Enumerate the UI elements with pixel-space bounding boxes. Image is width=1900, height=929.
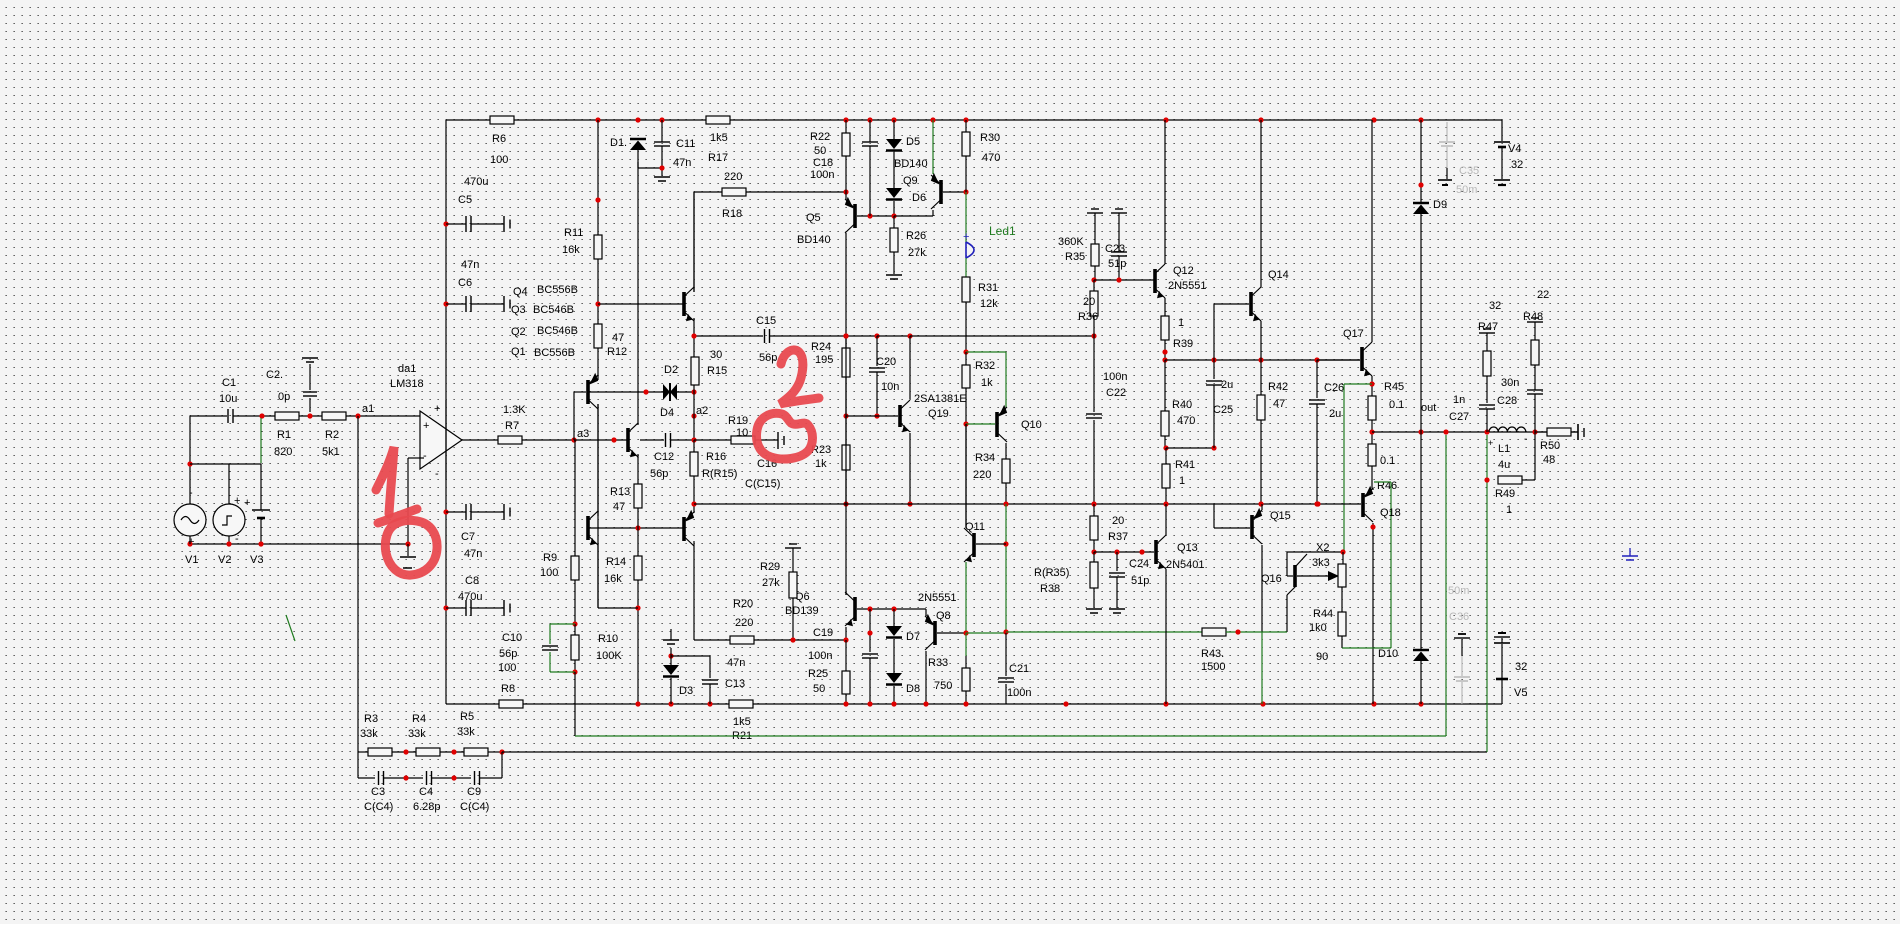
wire Q13 emitter down: [1165, 569, 1167, 704]
wire R12 to QL emitter: [597, 348, 599, 380]
svg-text:R9: R9: [543, 552, 557, 564]
svg-text:R41: R41: [1175, 459, 1195, 471]
svg-text:1k5: 1k5: [733, 716, 751, 728]
wire D9 top lead: [1420, 120, 1422, 203]
tie above C23: [1111, 209, 1127, 213]
wire C21 top lead: [1005, 633, 1007, 676]
annotation circle 1: [385, 520, 437, 575]
svg-text:48: 48: [1543, 454, 1555, 466]
wire R46 green down: [1390, 482, 1392, 648]
dot R24 top: [843, 333, 848, 338]
svg-text:C2.: C2.: [266, 369, 283, 381]
wire feedback down: [574, 672, 576, 736]
svg-text:47: 47: [613, 501, 625, 513]
wire X2 top lead: [1342, 552, 1344, 564]
dot R18-R22: [843, 189, 848, 194]
dot bottom rail Q15 coll: [1260, 701, 1265, 706]
ground below R26: [886, 275, 902, 279]
wire R1 to R2: [299, 415, 322, 417]
dot ladder 406 top: [403, 749, 408, 754]
svg-text:2N5551: 2N5551: [918, 592, 957, 604]
wire Q5 collector down: [845, 233, 847, 595]
svg-text:D8: D8: [906, 683, 920, 695]
svg-text:a3: a3: [577, 428, 589, 440]
wire y448 wire: [1166, 447, 1214, 449]
dot Q19 emitter: [907, 501, 912, 506]
battery V5: [1494, 633, 1527, 704]
wire R9 top lead: [574, 440, 576, 556]
svg-text:R2: R2: [325, 429, 339, 441]
wire y336 to Q19: [877, 335, 910, 337]
wire feedback green long: [575, 735, 1446, 737]
svg-text:R42: R42: [1268, 381, 1288, 393]
wire D5 top lead: [893, 120, 895, 139]
svg-text:BD140: BD140: [894, 158, 928, 170]
dot top rail Q9 top: [930, 117, 935, 122]
svg-text:C27: C27: [1449, 411, 1469, 423]
wire R26 bottom lead: [893, 252, 895, 274]
svg-text:90: 90: [1316, 651, 1328, 663]
wire Q8 collector up: [925, 609, 927, 616]
resistor R36: [1078, 291, 1098, 323]
dot base lower node: [635, 525, 640, 530]
wire Q11 base stub: [976, 543, 1006, 545]
tie above D3: [663, 629, 679, 644]
svg-text:51p: 51p: [1108, 258, 1126, 270]
wire top rail seg3: [730, 119, 1502, 121]
wire R46 green tap: [1374, 481, 1391, 483]
svg-text:1k: 1k: [815, 458, 827, 470]
wire R2 to a1: [346, 415, 420, 417]
resistor R32: [962, 360, 995, 389]
svg-text:1k5: 1k5: [710, 132, 728, 144]
dot y504 left: [691, 501, 696, 506]
capacitor C15: [756, 315, 777, 364]
svg-text:V2: V2: [218, 554, 231, 566]
diode D10: [1378, 648, 1429, 661]
wire R29 bottom lead: [792, 598, 794, 640]
svg-text:Q3: Q3: [511, 304, 526, 316]
resistor R39: [1161, 316, 1193, 350]
transistor Q6 BD139: [785, 591, 855, 626]
wire top rail seg2: [514, 119, 706, 121]
wire LED top green: [965, 192, 967, 242]
svg-text:3k3: 3k3: [1312, 557, 1330, 569]
svg-text:C19: C19: [813, 627, 833, 639]
svg-text:C5: C5: [458, 194, 472, 206]
resistor R18: [722, 171, 746, 220]
svg-text:30n: 30n: [1501, 377, 1519, 389]
wire C12 right lead: [671, 439, 694, 441]
wire y360 wire: [1165, 359, 1360, 361]
svg-text:820: 820: [274, 446, 292, 458]
svg-text:out: out: [1421, 402, 1436, 414]
dot C19 top: [867, 606, 872, 611]
wire C2 to ground: [309, 364, 311, 390]
svg-text:R(R35): R(R35): [1034, 567, 1069, 579]
capacitor C26: [1309, 382, 1344, 420]
resistor R11: [562, 227, 602, 259]
svg-text:R33: R33: [928, 657, 948, 669]
wire R47 top stub: [1486, 333, 1488, 351]
wire D7-D8 link: [893, 639, 895, 673]
dot C20 bottom: [874, 413, 879, 418]
wire C19 top lead: [869, 609, 871, 652]
wire R11 lead top: [597, 120, 599, 235]
svg-text:56p: 56p: [499, 648, 517, 660]
diode D6: [886, 188, 926, 204]
wire C28 bottom lead: [1534, 394, 1536, 432]
svg-text:Q8: Q8: [936, 610, 951, 622]
dot Q19 coll: [907, 333, 912, 338]
dot R49 left: [1484, 477, 1489, 482]
transistor Q4 (left upper): [588, 373, 598, 409]
dot a2 row: [691, 437, 696, 442]
wire Q15 base wire: [1214, 527, 1250, 529]
wire R38 bottom lead: [1093, 588, 1095, 608]
resistor R47: [1478, 300, 1501, 376]
svg-text:100n: 100n: [808, 650, 832, 662]
resistor R6: [490, 116, 514, 166]
wire Q17 emitter down: [1371, 376, 1373, 396]
dot Q-pair base node: [595, 301, 600, 306]
resistor R46: [1368, 444, 1397, 492]
dot y360 left: [1162, 357, 1167, 362]
battery V3: [244, 497, 270, 566]
svg-text:470u: 470u: [464, 176, 488, 188]
transistor Q17: [1343, 328, 1372, 376]
wire R33 top lead: [965, 656, 967, 668]
capacitor C22: [1086, 371, 1127, 418]
svg-text:100n: 100n: [1007, 687, 1031, 699]
wire Q17 base wire: [1317, 359, 1360, 361]
wire R11-R12: [597, 259, 599, 324]
wire C6 stub: [446, 303, 466, 305]
svg-text:BD140: BD140: [797, 234, 831, 246]
wire R15 bottom lead: [693, 385, 695, 392]
tie above R48: [1527, 318, 1543, 322]
svg-text:R5: R5: [460, 711, 474, 723]
transistor Q19 2SA1381E: [900, 393, 967, 432]
wire R20 left wire: [694, 639, 730, 641]
svg-text:L1: L1: [1498, 443, 1510, 455]
svg-text:R6: R6: [492, 133, 506, 145]
svg-text:R36: R36: [1078, 311, 1098, 323]
wire R34 bottom lead: [1005, 483, 1007, 504]
source V1: [174, 487, 206, 566]
wire wire y633: [966, 632, 1006, 634]
wire R22 bottom lead: [845, 156, 847, 192]
svg-text:C24: C24: [1129, 558, 1149, 570]
svg-text:R4: R4: [412, 713, 426, 725]
wire C25 top lead: [1213, 360, 1215, 379]
svg-text:2u: 2u: [1221, 379, 1233, 391]
dot R36 bottom: [1091, 333, 1096, 338]
wire Q19 collector up: [909, 336, 911, 399]
wire C10 green top: [550, 623, 575, 625]
svg-text:BD139: BD139: [785, 605, 819, 617]
svg-text:BC546B: BC546B: [537, 325, 578, 337]
wire C24 top lead: [1116, 552, 1118, 571]
capacitor C18: [810, 142, 878, 181]
svg-text:Q19: Q19: [928, 408, 949, 420]
tie above R29: [785, 544, 801, 548]
wire R35 top stub: [1094, 213, 1096, 244]
svg-text:16k: 16k: [562, 244, 580, 256]
svg-text:100: 100: [490, 154, 508, 166]
svg-text:a2: a2: [696, 405, 708, 417]
wire R38 top lead: [1093, 552, 1095, 562]
wire Q14 base wire: [1214, 303, 1249, 305]
svg-text:47n: 47n: [461, 259, 479, 271]
annotation circle 2: [757, 413, 813, 459]
svg-text:+: +: [963, 231, 969, 243]
wire C11 bottom lead: [661, 146, 663, 176]
capacitor C25: [1206, 379, 1233, 416]
wire V2 top lead: [228, 464, 230, 504]
resistor R15: [691, 349, 727, 385]
svg-text:750: 750: [934, 680, 952, 692]
wire a1 vertical: [357, 416, 359, 778]
wire Q18 base wire: [1318, 503, 1361, 505]
dot top rail Q12 col top: [1163, 117, 1168, 122]
wire Q14 collector up: [1260, 120, 1262, 287]
wire Q11 base green: [1005, 504, 1007, 633]
dot V3 bottom: [258, 541, 263, 546]
svg-text:195: 195: [815, 354, 833, 366]
wire C12 left lead: [640, 439, 664, 441]
dot bottom rail R33: [963, 701, 968, 706]
svg-text:BC546B: BC546B: [533, 304, 574, 316]
wire V4 rail corner: [1501, 120, 1503, 141]
annotation digit 2: [780, 350, 819, 404]
svg-text:R48: R48: [1523, 311, 1543, 323]
wire Q15 collector down: [1261, 545, 1263, 632]
wire R16 bottom lead: [693, 476, 695, 504]
svg-text:C7: C7: [461, 531, 475, 543]
wire Q8 emitter down: [925, 651, 927, 704]
wire QL collector down: [597, 404, 599, 608]
wire Q9 wire: [894, 215, 933, 217]
wire C8 stub: [446, 607, 466, 609]
svg-text:20: 20: [1112, 515, 1124, 527]
dot C23 bottom: [1116, 277, 1121, 282]
dot top rail D5 top: [891, 117, 896, 122]
ground (blue) far right: [1622, 548, 1638, 560]
resistor R30: [962, 132, 1000, 164]
svg-text:100: 100: [498, 662, 516, 674]
dot y360 1214: [1211, 357, 1216, 362]
dot R43 right: [1235, 629, 1240, 634]
svg-text:10n: 10n: [881, 381, 899, 393]
wire V3 top lead: [260, 464, 262, 510]
resistor R49: [1495, 476, 1522, 516]
svg-text:R10: R10: [598, 633, 618, 645]
diode pair D2 D4: [660, 364, 678, 419]
svg-text:C6: C6: [458, 277, 472, 289]
wire R37 bottom lead: [1093, 540, 1095, 552]
wire R9 bottom lead: [574, 580, 576, 624]
wire C13 bottom lead: [709, 684, 711, 704]
dot out 1535: [1532, 429, 1537, 434]
wire R42 top lead: [1260, 360, 1262, 395]
svg-text:Q14: Q14: [1268, 269, 1289, 281]
wire C19 bottom lead: [869, 658, 871, 704]
wire a3 wire to Q: [574, 439, 627, 441]
wire R46 bottom lead: [1371, 466, 1373, 488]
wire R48 top stub: [1534, 322, 1536, 340]
dot Q17 emitter: [1369, 381, 1374, 386]
wire a3 up to QL base: [573, 392, 575, 440]
wire R43 green left: [1006, 631, 1202, 633]
svg-text:R24: R24: [811, 341, 831, 353]
dot ladder 502: [499, 749, 504, 754]
svg-text:R17: R17: [708, 152, 728, 164]
capacitor C10: [499, 632, 558, 660]
wire R19-C16 lead: [755, 439, 778, 441]
svg-text:1k: 1k: [981, 377, 993, 389]
wire C13 top lead: [709, 656, 711, 678]
wire V2 bottom lead: [228, 536, 230, 544]
resistor R50: [1540, 428, 1571, 466]
capacitor C35 (ghost): [1438, 122, 1479, 196]
svg-text:220: 220: [724, 171, 742, 183]
wire R49 up to out: [1534, 432, 1536, 480]
capacitor C8: [458, 575, 510, 616]
ground below C11: [654, 177, 670, 181]
svg-text:47n: 47n: [727, 657, 745, 669]
dot x846 y336b: [843, 333, 848, 338]
svg-text:32: 32: [1515, 661, 1527, 673]
svg-text:D7: D7: [906, 631, 920, 643]
svg-text:56p: 56p: [759, 352, 777, 364]
wire C20 top lead: [876, 336, 878, 366]
resistor R5: [457, 711, 488, 756]
node a3: [571, 428, 589, 443]
dot Q18 base: [1315, 501, 1320, 506]
wire C23 bottom lead: [1118, 256, 1120, 280]
wire out wire: [1372, 431, 1578, 433]
svg-text:D1.: D1.: [610, 137, 627, 149]
dot C7: [443, 509, 448, 514]
svg-text:R39: R39: [1173, 338, 1193, 350]
dot bottom rail R14 col: [635, 701, 640, 706]
wire R14 bottom lead: [637, 580, 639, 704]
wire base wire upper: [598, 303, 684, 305]
wire long bottom black: [502, 751, 1487, 753]
svg-text:V1: V1: [185, 554, 198, 566]
dot minus-rail junction: [405, 541, 410, 546]
resistor R9: [540, 552, 579, 580]
svg-text:C4: C4: [419, 786, 433, 798]
wire ladder bottom 3: [432, 777, 471, 779]
svg-text:R45: R45: [1384, 381, 1404, 393]
wire Q19 emitter down: [909, 433, 911, 504]
capacitor C28: [1497, 377, 1543, 407]
svg-text:32: 32: [1511, 159, 1523, 171]
svg-text:1: 1: [1179, 475, 1185, 487]
dot R10 bottom: [572, 669, 577, 674]
node a1: [355, 403, 374, 419]
transistor Q (C12 driver): [628, 423, 638, 457]
wire R18 right lead: [746, 191, 846, 193]
wire R41 top lead: [1165, 448, 1167, 464]
wire Q14 base down: [1213, 304, 1215, 360]
wire X2 green down: [1343, 384, 1345, 552]
svg-text:47n: 47n: [464, 548, 482, 560]
wire R49 left drop: [1486, 435, 1488, 480]
wire Q8 base stub: [937, 632, 966, 634]
wire ladder bottom 2: [384, 777, 423, 779]
wire R43 right wire: [1226, 631, 1287, 633]
wire green V-source tap: [260, 418, 262, 463]
svg-text:R12: R12: [607, 346, 627, 358]
dot C8: [443, 605, 448, 610]
wire Q10 emitter green up: [1005, 352, 1007, 407]
wire R45 green left: [1344, 383, 1372, 385]
dot 614-440: [611, 437, 616, 442]
dot out top: [1369, 429, 1374, 434]
svg-text:C35: C35: [1459, 165, 1479, 177]
wire left rail overlay: [445, 400, 447, 480]
svg-text:R14: R14: [606, 556, 626, 568]
capacitor C4: [413, 771, 441, 813]
wire Q11 collector up: [965, 424, 967, 528]
svg-text:+: +: [244, 497, 250, 509]
dot Q9 base: [963, 189, 968, 194]
wire C25 bottom lead: [1213, 385, 1215, 448]
resistor R43: [1201, 628, 1226, 673]
dot R37 bottom: [1091, 549, 1096, 554]
svg-text:5k1: 5k1: [322, 446, 340, 458]
svg-text:470: 470: [982, 152, 1000, 164]
diode D9: [1413, 199, 1447, 214]
svg-text:Q16: Q16: [1261, 573, 1282, 585]
annotation digit 1: [376, 447, 394, 514]
wire Q18 collector down: [1372, 523, 1374, 704]
svg-text:1: 1: [1506, 504, 1512, 516]
transistor Q10: [997, 405, 1042, 442]
ground above C2: [302, 358, 318, 362]
svg-text:Q15: Q15: [1270, 510, 1291, 522]
dot Q11 base: [1003, 541, 1008, 546]
dot ladder 454 top: [451, 749, 456, 754]
svg-text:470u: 470u: [458, 591, 482, 603]
wire C15 wire right: [770, 335, 846, 337]
wire ladder top mid1: [392, 751, 416, 753]
transistor Q3 (right upper): [684, 287, 694, 321]
node dot R1-R2: [307, 413, 312, 418]
wire D1 col down: [637, 162, 639, 425]
svg-text:220: 220: [973, 469, 991, 481]
svg-text:0.1: 0.1: [1389, 399, 1404, 411]
capacitor C19: [808, 627, 878, 662]
wire Q10 base green: [966, 423, 995, 425]
wire C26 bottom lead: [1316, 404, 1318, 504]
svg-text:R37: R37: [1108, 531, 1128, 543]
wire R22 top lead: [845, 120, 847, 133]
resistor R40: [1161, 399, 1195, 436]
dot D9 pin: [1418, 182, 1423, 187]
resistor R19: [728, 415, 755, 444]
wire C26 top lead: [1316, 360, 1318, 398]
wire C10 green bottom: [549, 652, 551, 672]
resistor R4: [408, 713, 440, 756]
wire Q15 base up: [1213, 504, 1215, 528]
svg-text:R25: R25: [808, 668, 828, 680]
svg-text:50: 50: [814, 145, 826, 157]
dot Q8 base: [963, 630, 968, 635]
